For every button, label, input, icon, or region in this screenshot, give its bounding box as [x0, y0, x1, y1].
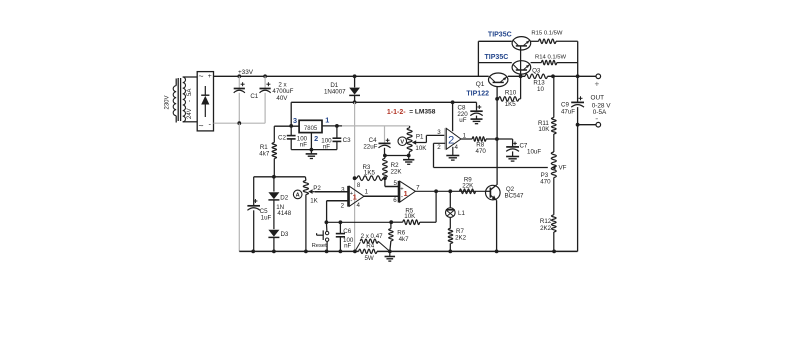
svg-text:10: 10: [537, 86, 544, 93]
terminal OUT minus: [595, 114, 600, 127]
wire V+ rail after D1: [291, 100, 476, 126]
svg-text:D2: D2: [280, 194, 288, 201]
bridge rectifier B1: [197, 71, 213, 131]
svg-text:22K: 22K: [462, 182, 474, 189]
label output rating: [591, 94, 612, 115]
wire P2 wiper to U1a pin 3: [315, 191, 348, 193]
capacitor C4 22uF: [363, 126, 390, 156]
svg-text:Reset: Reset: [312, 243, 328, 249]
transistor Q2 BC547: [486, 185, 525, 200]
svg-text:D3: D3: [280, 231, 288, 238]
capacitor C2 100nF: [278, 126, 308, 150]
wire Q1 base node: [495, 86, 499, 185]
wire 5V reference to P1: [342, 125, 410, 127]
svg-text:230V: 230V: [164, 95, 170, 109]
node +33V: [238, 69, 254, 76]
svg-text:TIP35C: TIP35C: [485, 54, 509, 61]
svg-text:1K5: 1K5: [505, 101, 517, 108]
potentiometer P1 10K: [398, 126, 445, 156]
wire VF line to P3 wiper: [434, 167, 548, 169]
wire U2a pin 2 to VF line: [434, 143, 446, 167]
svg-text:nF: nF: [344, 243, 351, 250]
svg-text:-: -: [595, 114, 598, 124]
resistor R4 2x0.47 5W: [355, 233, 390, 262]
op-amp U1b (LM358 #1): [393, 180, 420, 204]
ground at U2a pin 4: [446, 147, 459, 160]
wire R15/R14 join: [577, 41, 579, 76]
diode D2 1N4148: [268, 177, 291, 229]
svg-text:1: 1: [365, 189, 369, 196]
ground at P1: [383, 154, 414, 165]
capacitor C8 220uF: [457, 102, 482, 124]
svg-text:2: 2: [437, 144, 441, 151]
op-amp U1a (LM358 #1): [341, 182, 369, 209]
resistor R10 1K5: [499, 76, 521, 108]
resistor R15 0.1/5W: [531, 30, 578, 43]
lamp L1: [446, 191, 466, 217]
svg-text:40V: 40V: [276, 95, 288, 102]
svg-text:4148: 4148: [277, 210, 291, 217]
svg-text:1: 1: [463, 132, 467, 139]
capacitor C1 2x4700uF 40V: [234, 76, 294, 123]
svg-text:4: 4: [356, 202, 360, 209]
svg-text:24V: 24V: [187, 108, 193, 119]
svg-text:22K: 22K: [390, 168, 402, 175]
svg-text:1-1-2-: 1-1-2-: [387, 109, 406, 116]
transistor Q1 TIP122: [466, 73, 507, 98]
wire bottom rail: [239, 250, 577, 254]
svg-text:5W: 5W: [364, 255, 373, 262]
resistor R6 4k7: [389, 222, 409, 251]
transistor Q3 TIP35C: [485, 54, 541, 74]
svg-text:uF: uF: [459, 117, 466, 124]
wire U1b output node: [415, 189, 485, 193]
svg-text:10K: 10K: [404, 213, 416, 220]
svg-text:4: 4: [454, 144, 458, 151]
svg-text:1: 1: [325, 116, 329, 125]
svg-text:C3: C3: [343, 137, 351, 144]
wire U1a pin 2 to C6 node: [327, 201, 348, 223]
svg-text:2: 2: [448, 134, 454, 146]
svg-text:C2: C2: [278, 135, 286, 142]
capacitor C6 100nF: [336, 222, 354, 251]
svg-text:+: +: [208, 73, 212, 80]
svg-text:P1: P1: [416, 134, 424, 141]
svg-text:C6: C6: [343, 228, 351, 235]
svg-text:~: ~: [198, 120, 203, 130]
svg-text:V: V: [400, 140, 404, 146]
svg-text:8: 8: [357, 182, 361, 189]
svg-text:C1: C1: [250, 93, 258, 100]
wire C6 node: [325, 220, 392, 224]
svg-text:R14 0.1/5W: R14 0.1/5W: [535, 55, 567, 61]
switch S1 Reset: [312, 222, 329, 251]
resistor R3 1K5: [355, 164, 387, 181]
svg-text:2K2: 2K2: [455, 235, 467, 242]
svg-text:5A: 5A: [187, 89, 193, 96]
svg-text:10K: 10K: [415, 145, 427, 152]
resistor R13 10: [508, 74, 596, 93]
svg-text:4k7: 4k7: [259, 150, 270, 157]
svg-text:R15 0.1/5W: R15 0.1/5W: [531, 30, 563, 36]
svg-text:R10: R10: [505, 90, 517, 97]
svg-text:2 x 0.47: 2 x 0.47: [361, 233, 384, 240]
svg-text:4k7: 4k7: [399, 236, 410, 243]
wire U1a out to U1b pin 6: [364, 195, 399, 197]
svg-text:5: 5: [393, 180, 397, 187]
wire TIP35C collector bus: [478, 41, 511, 76]
svg-text:1uF: 1uF: [261, 215, 272, 222]
resistor R1 4k7: [259, 126, 276, 177]
node VF: [559, 165, 567, 172]
svg-text:1: 1: [353, 193, 358, 202]
svg-text:6: 6: [393, 197, 397, 204]
svg-text:OUT: OUT: [591, 94, 605, 101]
wire Q4/Q3 bases to Q1 emitter: [519, 46, 523, 78]
svg-text:10uF: 10uF: [527, 148, 541, 155]
resistor R9 22K: [460, 177, 476, 194]
transistor Q4 TIP35C: [488, 32, 531, 50]
wire output return: [577, 125, 579, 252]
op-amp U2a (LM358 #2): [437, 102, 466, 151]
svg-text:Q3: Q3: [532, 67, 541, 74]
svg-text:TIP122: TIP122: [466, 91, 489, 98]
wire bridge negative to bottom rail: [214, 121, 266, 251]
svg-text:1K: 1K: [310, 197, 318, 204]
resistor R7 2K2: [448, 218, 466, 252]
resistor R11 10K: [538, 76, 556, 134]
svg-text:+33V: +33V: [238, 69, 254, 76]
capacitor C9 47uF: [561, 76, 584, 124]
ground at R6: [385, 251, 396, 261]
resistor R12 2K2: [540, 215, 556, 252]
wire D1 node to ground rail (through op-amp U1a): [353, 102, 357, 251]
resistor R14 0.1/5W: [531, 55, 578, 65]
resistor R8 470: [461, 137, 497, 155]
terminal OUT plus: [595, 74, 601, 89]
svg-text:22uF: 22uF: [363, 144, 377, 151]
svg-text:470: 470: [540, 178, 551, 185]
svg-text:1N4007: 1N4007: [324, 89, 346, 96]
transformer T1 230V / 24V-5A: [164, 77, 197, 123]
svg-text:L1: L1: [458, 210, 465, 217]
svg-text:-: -: [187, 100, 193, 102]
regulator IC2 7805: [274, 116, 342, 150]
capacitor C5 1uF: [247, 177, 271, 252]
potentiometer P2 1K: [293, 177, 321, 252]
wire negative reference node: [254, 175, 306, 179]
svg-text:2: 2: [341, 203, 345, 210]
svg-text:A: A: [296, 193, 300, 199]
svg-text:BC547: BC547: [505, 192, 524, 199]
svg-text:VF: VF: [559, 165, 567, 172]
wire +33V rail: [214, 74, 489, 78]
wire R2 node to U1b pin 5: [385, 178, 399, 186]
note LM358 assignment: [387, 109, 436, 116]
resistor R2 22K: [383, 156, 403, 178]
svg-text:3: 3: [293, 116, 297, 125]
svg-text:TIP35C: TIP35C: [488, 32, 512, 39]
wire OUT minus: [576, 123, 596, 127]
diode D3: [268, 230, 289, 252]
resistor R5 10K: [389, 191, 436, 224]
svg-text:R4: R4: [366, 242, 374, 249]
svg-text:= LM358: = LM358: [409, 109, 436, 116]
diode D1 1N4007: [324, 76, 360, 102]
potentiometer P3 470: [540, 134, 556, 215]
svg-text:+: +: [595, 80, 600, 89]
svg-text:1K5: 1K5: [364, 170, 376, 177]
svg-text:Q1: Q1: [476, 81, 485, 88]
svg-text:3: 3: [437, 129, 441, 136]
svg-text:7: 7: [416, 184, 420, 191]
svg-text:P2: P2: [313, 185, 321, 192]
ground at 7805 pin 2: [291, 148, 337, 159]
svg-text:470: 470: [476, 148, 487, 155]
svg-text:2: 2: [314, 134, 318, 143]
svg-text:10K: 10K: [538, 126, 550, 133]
svg-text:2K2: 2K2: [540, 225, 552, 232]
capacitor C7 10uF: [497, 139, 541, 161]
svg-text:nF: nF: [300, 142, 307, 149]
svg-text:-: -: [209, 120, 212, 129]
wire Q2 emitter: [496, 200, 498, 251]
svg-text:~: ~: [198, 71, 203, 81]
svg-text:47uF: 47uF: [561, 108, 575, 115]
svg-text:7805: 7805: [304, 126, 318, 132]
capacitor C3 100nF: [321, 124, 351, 150]
